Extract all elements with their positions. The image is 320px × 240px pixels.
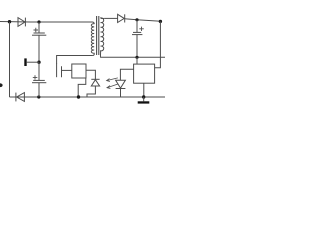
wire terminal lead (27, 61, 39, 63)
AC input terminal bar (24, 58, 26, 66)
wire LED cathode lead (120, 89, 122, 98)
transformer T1 primary winding (91, 22, 94, 55)
wire primary bottom lead (57, 56, 93, 65)
wire top rail primary (0, 21, 93, 24)
node AC line 1 junction (8, 20, 11, 23)
diode D2 (16, 93, 25, 102)
wire U1 bottom pin (78, 78, 86, 97)
node top of C3 (135, 18, 138, 21)
wire right vertical to U2 (155, 21, 160, 67)
wire C3 top lead (136, 20, 138, 33)
capacitor C4 (57, 64, 72, 78)
node output right corner (159, 20, 162, 23)
wire node to C2 (38, 62, 40, 80)
capacitor C1 (32, 28, 46, 35)
wire secondary ground rail (100, 56, 165, 58)
wire U2 top pin (136, 57, 138, 64)
transformer core (96, 16, 98, 55)
regulator IC U2 box (134, 64, 155, 83)
capacitor C3 (132, 27, 144, 35)
node U2 ground junction (142, 95, 145, 98)
node C3 to ground rail (135, 56, 138, 59)
node top of C1 (37, 20, 40, 23)
wire output top rail (125, 19, 161, 22)
wire bottom rail (10, 96, 166, 98)
wire C3 bottom lead (136, 35, 138, 58)
left edge blob (0, 83, 3, 87)
optocoupler arrow 2 (107, 84, 118, 89)
node doubler midpoint (37, 61, 40, 64)
wire U2 left pin to LED (120, 69, 133, 80)
wire left vertical (9, 22, 11, 97)
ground (138, 97, 150, 104)
wire U2 bottom pin (143, 83, 145, 97)
node bottom of C2 (37, 95, 40, 98)
transformer T1 secondary winding (100, 18, 104, 57)
optocoupler arrow 1 (107, 78, 118, 82)
photodiode of optocoupler (91, 79, 99, 86)
wire photodiode bottom lead (87, 86, 95, 97)
wire photodiode top lead from U1 (86, 70, 95, 79)
wire C1 top lead (38, 22, 40, 33)
node U1 ground junction (77, 95, 80, 98)
diode D1 (18, 18, 25, 27)
wire C2 bottom lead (38, 83, 40, 97)
wire secondary top lead (104, 17, 117, 19)
diode D3 (118, 14, 125, 22)
capacitor C2 (32, 75, 46, 83)
LED of optocoupler (116, 80, 126, 88)
switcher IC U1 box (72, 64, 86, 78)
wire C1 to node (38, 35, 40, 62)
